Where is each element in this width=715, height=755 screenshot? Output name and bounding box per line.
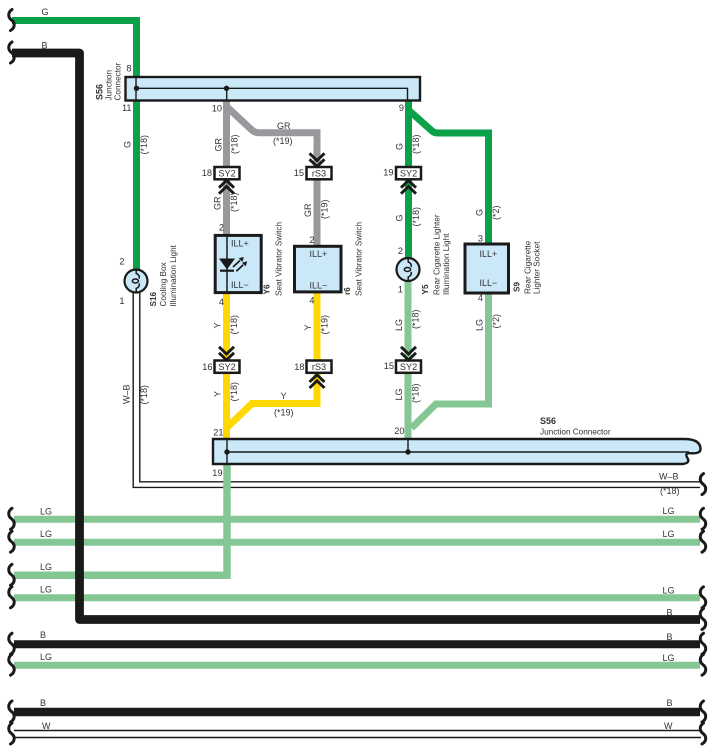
connector box rS3 pin 15 [307,167,332,179]
svg-text:r6: r6 [343,287,352,295]
svg-text:B: B [40,698,46,708]
connector box SY2 pin 16 [215,361,240,373]
label S56 top vertical [95,62,123,100]
svg-text:21: 21 [213,428,223,438]
svg-text:11: 11 [122,103,132,113]
wire GR main from junction pin 10 to Y6 [223,99,230,237]
svg-text:4: 4 [309,296,314,306]
svg-text:19: 19 [383,168,393,178]
svg-text:(*19): (*19) [274,408,294,418]
svg-text:GR: GR [213,196,223,210]
svg-text:(*18): (*18) [411,134,421,154]
svg-text:4: 4 [478,293,483,303]
svg-text:(*18): (*18) [660,486,680,496]
svg-text:Y: Y [281,391,287,401]
component box Y6 Seat Vibrator Switch [215,235,261,292]
label G (*18) above SY2 19 [395,134,422,154]
svg-text:G: G [42,7,49,17]
svg-text:S56: S56 [540,416,556,426]
label LG (*18) below SY2 15 [394,383,421,403]
label G (*2) S9 column [475,205,502,220]
break symbol right LG row4 [700,587,705,608]
svg-text:ILL−: ILL− [480,278,498,288]
bulb S16 Cooling Box Illumination Light [125,270,148,293]
svg-text:18: 18 [202,168,212,178]
break symbol left LG row3 [9,564,14,585]
junction connector S56 bottom bar internal line [227,451,689,453]
label Y6 component vertical [263,222,284,296]
wire W bottom upper line [14,730,701,732]
svg-text:ILL+: ILL+ [480,249,498,259]
svg-text:GR: GR [277,121,291,131]
svg-text:ILL+: ILL+ [310,249,328,259]
svg-text:Rear Cigarette Lighter: Rear Cigarette Lighter [433,214,442,295]
svg-text:LG: LG [40,506,52,516]
svg-text:LG: LG [40,529,52,539]
wire LG bus row 2 [14,539,700,546]
svg-text:S56: S56 [95,84,105,100]
break symbol left LG row4 [9,587,14,608]
wire LG bus row 5 [14,662,700,669]
label GR (*19) horizontal branch [273,121,293,146]
node dot pin 10 [224,86,229,91]
component box r6 Seat Vibrator Switch [295,246,342,292]
svg-text:B: B [42,41,48,51]
break symbol right W-B [700,474,705,495]
node dot pin 20 [405,449,410,454]
LED symbol inside Y6 [219,257,247,271]
svg-text:Seat Vibrator Switch: Seat Vibrator Switch [355,222,364,296]
label G (*18) column1 [123,135,150,155]
wire G from junction pin 9 to Y5 [405,99,412,258]
chevrons below SY2 19 pointing up [401,181,416,194]
label Y (*19) below r6 [303,315,330,335]
svg-text:(*19): (*19) [320,315,330,335]
svg-text:rS3: rS3 [312,168,326,178]
svg-text:G: G [395,214,405,221]
svg-text:18: 18 [294,362,304,372]
wire Y from Y6 to junction pin 21 [223,291,230,440]
break symbol left G [9,10,14,31]
svg-text:3: 3 [478,234,483,244]
bulb Y5 Rear Cigarette Lighter Illumination Light [397,258,420,281]
chevrons above SY2 15 pointing down [401,347,416,360]
wire LG from junction pin 19 to bus row 3 [14,460,227,575]
svg-text:B: B [667,632,673,642]
junction connector S56 bottom bar pin21-19 stub [226,440,228,464]
break symbol right B line [700,609,705,630]
break symbol right B bottom [700,701,705,722]
junction connector S56 top bar body [126,77,421,101]
svg-text:ILL+: ILL+ [231,239,249,249]
svg-text:Junction Connector: Junction Connector [540,428,611,437]
label Y (*18) below Y6 [213,315,240,335]
connector box SY2 pin 19 [396,167,421,179]
svg-text:(*18): (*18) [229,192,239,212]
svg-text:4: 4 [219,297,224,307]
svg-text:LG: LG [394,319,404,331]
break symbol right W bottom [700,723,705,744]
component box S9 Rear Cigarette Lighter Socket [465,244,509,293]
svg-text:SY2: SY2 [400,168,417,178]
svg-text:1: 1 [398,285,403,295]
svg-text:15: 15 [384,361,394,371]
svg-text:W: W [664,721,673,731]
label LG (*18) below Y5 [394,309,421,331]
svg-text:LG: LG [663,586,675,596]
svg-text:(*18): (*18) [139,135,149,155]
wire W bottom lower line [14,737,701,739]
svg-text:(*18): (*18) [229,315,239,335]
wire B bottom bus [14,708,700,717]
junction connector S56 top bar pin8-11 stub [135,78,137,101]
wire Y from r6 joining pin 21 wire [228,291,318,427]
junction connector S56 bottom bar body [213,439,701,464]
svg-text:LG: LG [475,319,485,331]
junction connector S56 bottom bar pin20 stub [407,440,409,453]
svg-text:Seat Vibrator Switch: Seat Vibrator Switch [275,222,284,296]
svg-text:16: 16 [202,362,212,372]
wire LG bus row 4 [14,594,700,601]
svg-text:Illumination Light: Illumination Light [442,233,451,295]
node dot pin 8/11 [134,86,139,91]
break symbol right LG row1 [700,508,705,529]
svg-text:(*18): (*18) [411,309,421,329]
svg-text:G: G [123,141,133,148]
break symbol left B [9,42,14,63]
junction connector S56 top bar pin10 stub [226,88,228,100]
label W-B (*18) right [659,472,680,497]
svg-text:2: 2 [309,235,314,245]
break symbol left B bottom [9,701,14,722]
label Y (*19) horizontal [274,391,294,418]
label LG (*2) S9 column [475,314,502,331]
svg-text:G: G [395,143,405,150]
svg-text:LG: LG [663,529,675,539]
break symbol left LG row5 [9,654,14,675]
svg-text:Y5: Y5 [421,284,430,294]
svg-text:GR: GR [303,203,313,217]
svg-text:ILL−: ILL− [310,281,328,291]
svg-text:SY2: SY2 [218,362,235,372]
node dot pin 21/19 [224,449,229,454]
chevrons above rS3 15 pointing down [310,153,325,166]
connector box rS3 pin 18 [307,361,332,373]
wire LG from Y5 to junction pin 20 [405,281,412,440]
svg-text:S16: S16 [149,291,158,306]
svg-text:GR: GR [214,137,224,151]
label G (*18) below SY2 19 [395,207,422,227]
wire GR branch to rS3 and r6 [227,107,318,248]
svg-text:(*2): (*2) [491,314,501,329]
svg-text:Junction: Junction [105,70,114,101]
svg-text:Rear Cigarette: Rear Cigarette [524,240,533,294]
svg-text:Y6: Y6 [263,284,272,294]
svg-text:Y: Y [213,391,223,397]
svg-text:S9: S9 [513,282,522,292]
svg-text:SY2: SY2 [218,168,235,178]
svg-text:15: 15 [294,168,304,178]
svg-text:ILL−: ILL− [231,280,249,290]
label S9 component vertical [513,240,542,294]
chevrons below SY2 18 pointing up [219,181,234,194]
svg-text:G: G [475,209,485,216]
svg-text:Y: Y [213,322,223,328]
svg-text:W–B: W–B [122,384,132,404]
wire W-B inner line from S16 to right edge [140,293,700,482]
svg-text:(*18): (*18) [139,385,149,405]
svg-text:LG: LG [40,562,52,572]
junction connector S56 top bar internal line [136,88,408,100]
wire G branch from pin 9 to S9 [409,110,489,245]
label W-B (*18) left column vertical [122,384,150,404]
svg-text:B: B [40,630,46,640]
svg-text:10: 10 [212,104,222,114]
svg-text:9: 9 [399,103,404,113]
label Y5 component vertical [421,214,451,295]
break symbol right LG row2 [700,531,705,552]
svg-text:LG: LG [40,585,52,595]
wire G main from top-left to S16 [12,21,137,271]
label r6 component vertical [343,222,364,296]
break symbol left B bus [9,633,14,654]
svg-text:2: 2 [119,257,124,267]
break symbol left LG row2 [9,531,14,552]
svg-text:LG: LG [663,653,675,663]
connector box SY2 pin 15 [396,361,421,373]
svg-text:(*18): (*18) [411,207,421,227]
svg-text:(*18): (*18) [411,383,421,403]
svg-text:(*18): (*18) [230,134,240,154]
svg-text:Lighter Socket: Lighter Socket [533,241,542,294]
svg-text:SY2: SY2 [400,362,417,372]
svg-text:B: B [667,608,673,618]
svg-text:2: 2 [398,246,403,256]
connector box SY2 pin 18 [215,167,240,179]
chevrons above SY2 16 pointing down [219,347,234,360]
label S56 bottom bar [540,416,611,437]
wire B bus row [14,640,700,648]
wire B main L-shaped [12,53,700,620]
svg-text:rS3: rS3 [312,362,326,372]
label GR (*18) above SY2 18 [214,134,240,154]
svg-text:(*19): (*19) [320,199,330,219]
wire LG bus row 1 [14,516,700,523]
wire W-B outer line from S16 to right edge [133,293,700,487]
label GR (*19) below rS3 15 [303,199,330,219]
svg-text:LG: LG [663,506,675,516]
label Y (*18) below SY2 16 [213,382,240,402]
svg-text:W–B: W–B [659,472,679,482]
svg-text:Illumination Light: Illumination Light [169,244,178,306]
label S16 component vertical [149,244,178,306]
svg-text:(*2): (*2) [491,205,501,220]
svg-text:1: 1 [119,296,124,306]
break symbol left LG row1 [9,508,14,529]
svg-text:B: B [667,698,673,708]
svg-text:Cooling Box: Cooling Box [159,262,168,306]
svg-text:8: 8 [126,64,131,74]
svg-text:(*19): (*19) [273,136,293,146]
svg-text:19: 19 [212,468,222,478]
svg-text:(*18): (*18) [229,382,239,402]
label GR (*18) below SY2 18 [213,192,240,212]
svg-text:2: 2 [219,223,224,233]
break symbol left W bottom [9,723,14,744]
chevrons below rS3 18 pointing up [310,375,325,388]
svg-text:20: 20 [394,426,404,436]
break symbol right B bus [700,633,705,654]
svg-text:LG: LG [40,652,52,662]
break symbol right LG row5 [700,654,705,675]
svg-text:Y: Y [303,324,313,330]
svg-text:LG: LG [394,388,404,400]
svg-text:Connector: Connector [114,62,123,100]
svg-text:W: W [42,721,51,731]
wire LG from S9 joining pin 20 wire [412,292,489,428]
